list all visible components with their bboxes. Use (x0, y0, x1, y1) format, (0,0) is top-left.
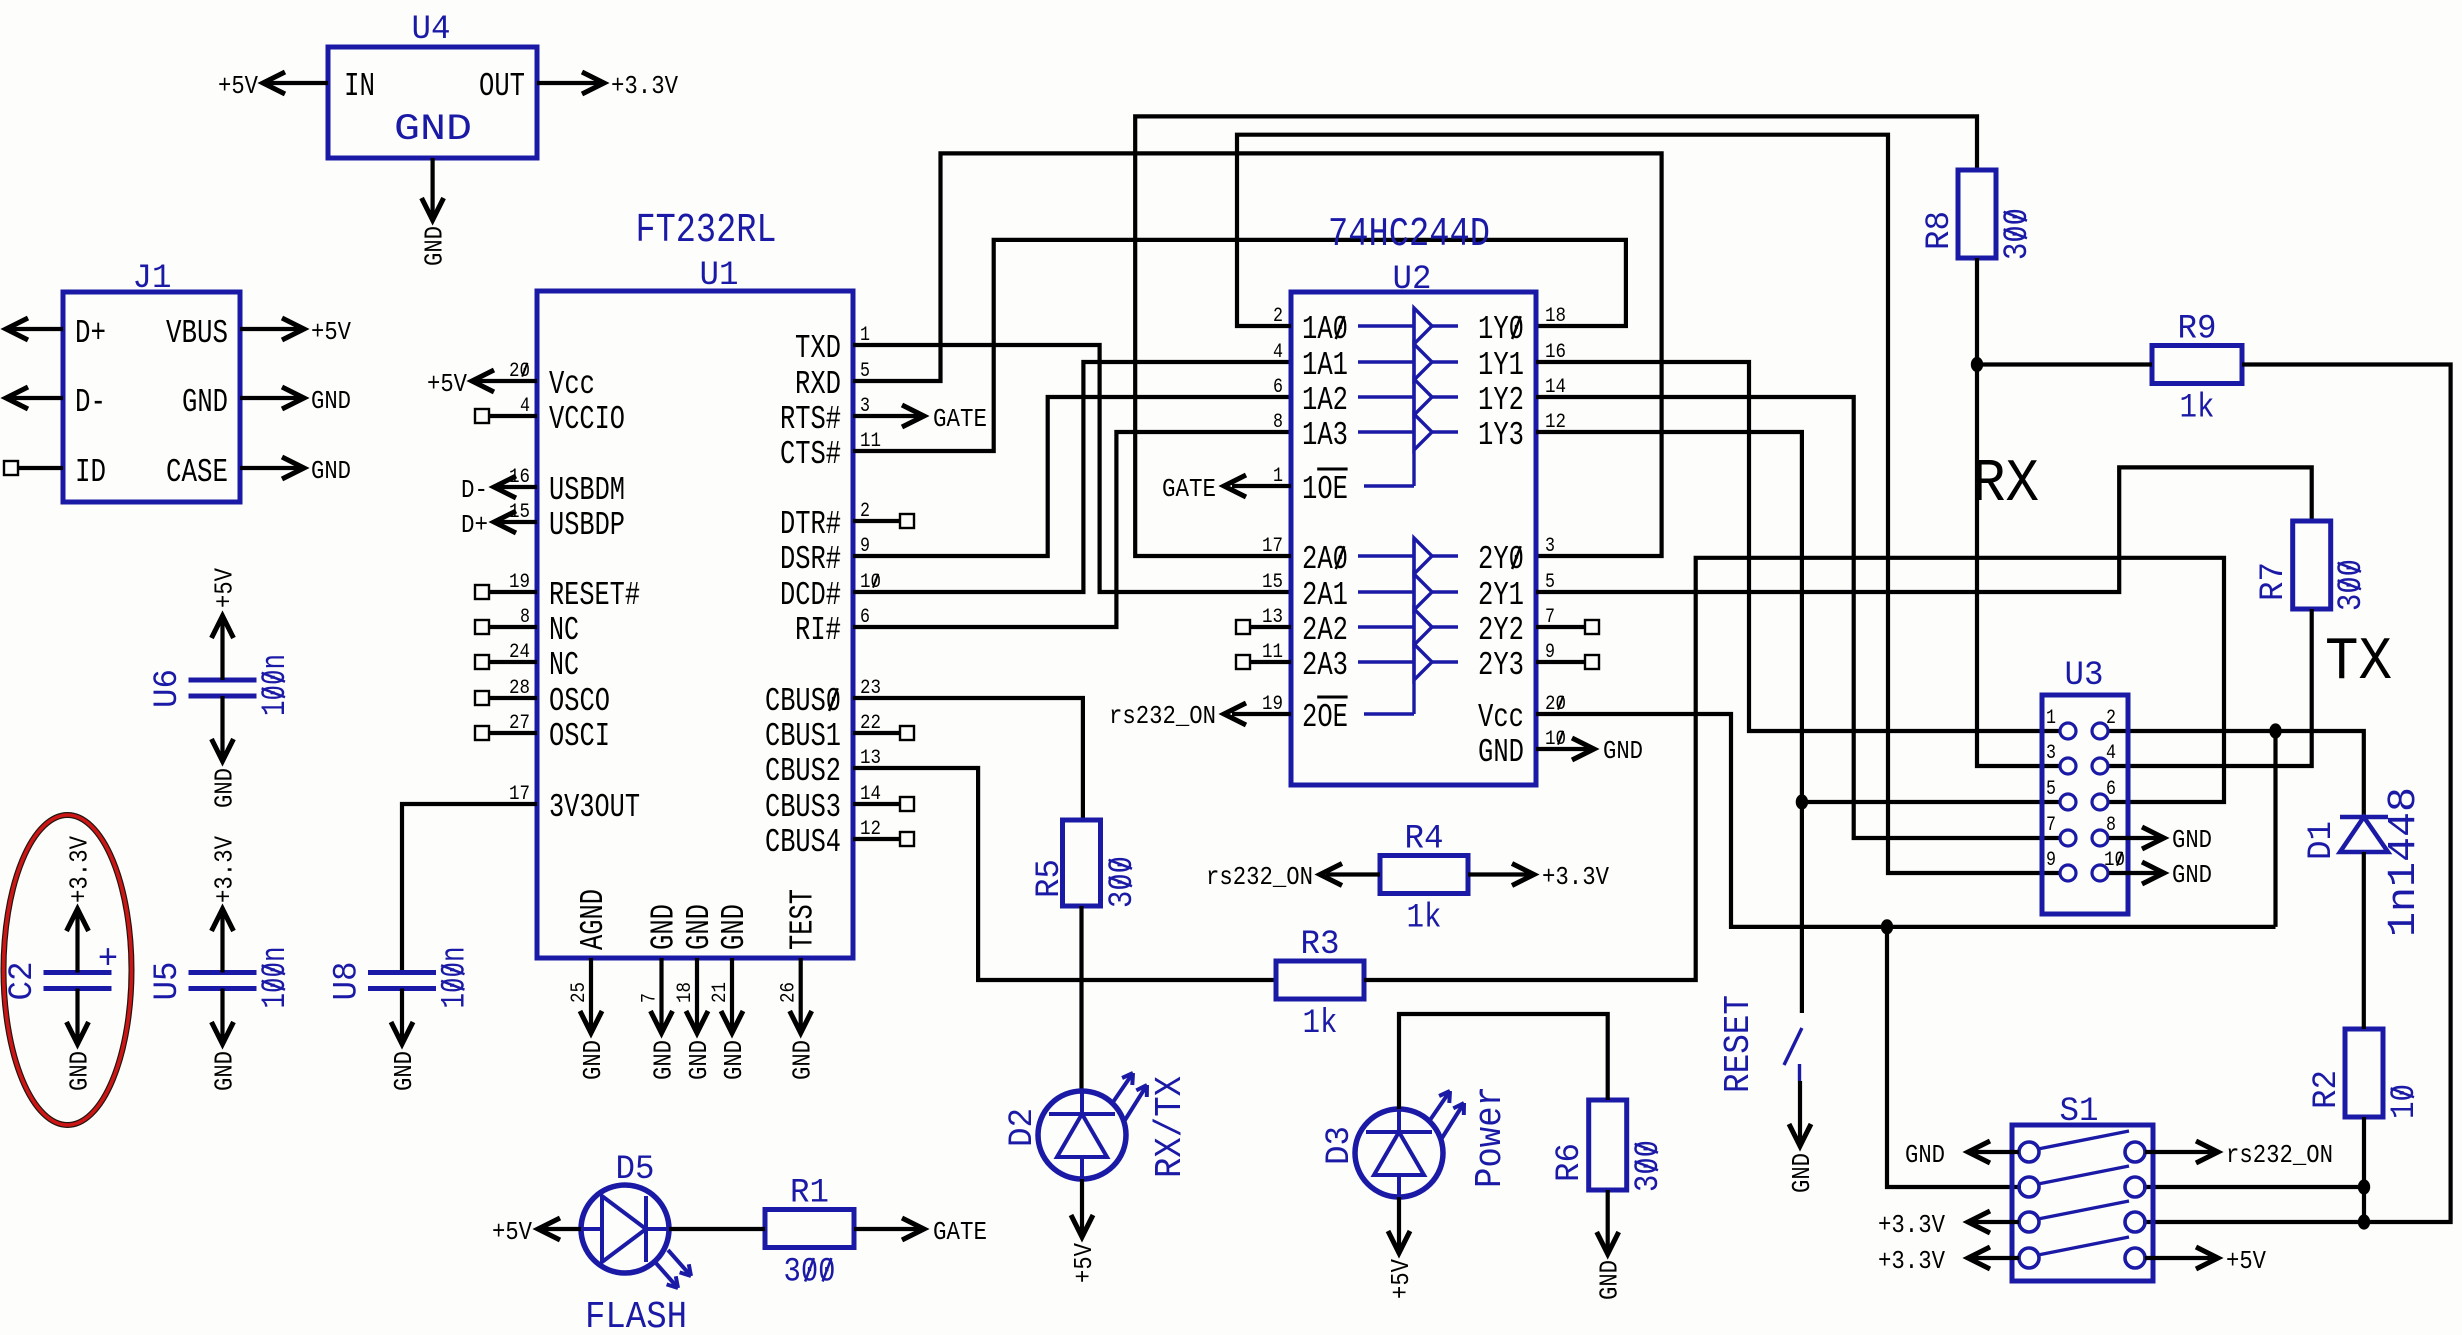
svg-text:rs232_ON: rs232_ON (2226, 1140, 2333, 1170)
svg-text:3V3OUT: 3V3OUT (549, 789, 640, 826)
junction U3 pin2 net (2269, 723, 2281, 738)
wire S1 row3 left (1972, 1220, 2019, 1224)
wire U2 2Y2 (1536, 625, 1585, 629)
wire R2 to S1 junctions (2362, 1117, 2366, 1222)
svg-text:CBUS2: CBUS2 (765, 753, 841, 790)
wire CBUS4 (853, 837, 900, 841)
svg-text:6: 6 (2106, 778, 2116, 801)
wire U2 2Y3 (1536, 660, 1585, 664)
wire DCD# to U2 1A1 (853, 362, 1291, 592)
wire D2 to +5V (1080, 1179, 1084, 1233)
svg-text:TXD: TXD (795, 330, 841, 367)
svg-text:ID: ID (75, 454, 106, 491)
wire to S1 row2 right (2143, 1185, 2364, 1189)
svg-text:USBDP: USBDP (549, 507, 625, 544)
svg-text:5: 5 (2046, 778, 2056, 801)
no-connect (U1 RESET#) (475, 585, 489, 599)
svg-text:1A0: 1A0 (1302, 311, 1348, 348)
svg-text:TEST: TEST (785, 889, 822, 950)
wire C2 to GND (75, 989, 79, 1041)
header U3 (2042, 695, 2128, 914)
wire D1 to R2 (2362, 852, 2366, 1029)
wire to U3 pin5 (1802, 800, 2060, 804)
voltage regulator U4 (328, 47, 537, 158)
svg-text:1A1: 1A1 (1302, 347, 1348, 384)
svg-text:OSCO: OSCO (549, 683, 610, 720)
svg-text:GND: GND (311, 456, 351, 486)
junction S1 row3 node (2358, 1214, 2370, 1229)
svg-text:1Y2: 1Y2 (1478, 382, 1524, 419)
svg-text:7: 7 (639, 993, 662, 1003)
wire D5 to R1 (669, 1227, 765, 1231)
svg-text:100n: 100n (257, 654, 295, 716)
ground (U6) (210, 768, 240, 808)
U1 bottom pin names (575, 889, 822, 950)
ground (U1 pin 18) (684, 1040, 714, 1080)
svg-text:NC: NC (549, 612, 579, 649)
svg-text:21: 21 (709, 982, 732, 1003)
svg-text:R3: R3 (1301, 926, 1340, 964)
U2 right pin numbers (1545, 305, 1566, 751)
wire U2 2A2 (1250, 625, 1291, 629)
svg-text:GND: GND (2172, 825, 2212, 855)
svg-text:NC: NC (549, 647, 579, 684)
no-connect (J1 ID) (4, 461, 18, 475)
svg-text:TX: TX (2325, 629, 2392, 697)
ground (U1 pin 25) (578, 1040, 608, 1080)
ground (U8) (389, 1051, 419, 1091)
wire U1 pin 21 GND (730, 958, 734, 1031)
U2 buffer bank 2 (1412, 538, 1415, 714)
wire U1 RESET# (489, 590, 537, 594)
wire U2 2A0 to R8 (1135, 116, 1977, 556)
svg-text:+5V: +5V (492, 1217, 532, 1247)
wire U2 Vcc to 3V3 rail (1536, 714, 2276, 927)
svg-text:GND: GND (684, 1040, 714, 1080)
svg-text:18: 18 (1545, 305, 1566, 328)
wire DTR# (853, 519, 900, 523)
svg-text:1k: 1k (1303, 1005, 1338, 1043)
no-connect (U1 OSCI) (475, 726, 489, 740)
wire C2 to +3.3V (75, 913, 79, 973)
svg-text:2A2: 2A2 (1302, 612, 1348, 649)
svg-text:GND: GND (1595, 1260, 1625, 1300)
ground (U5) (210, 1051, 240, 1091)
wire RTS# (853, 414, 922, 418)
wire U5 to +3.3V (220, 913, 224, 973)
wire U5 to GND (220, 989, 224, 1041)
wire R3 to U3 pin6 (1364, 558, 2224, 980)
U2 left pin names (1302, 311, 1348, 736)
wire U1 pin 26 GND (799, 958, 803, 1031)
wire U1 VCCIO (489, 414, 537, 418)
wire RI# to U2 1A3 (853, 432, 1291, 627)
svg-text:+: + (98, 941, 118, 979)
svg-text:1Y1: 1Y1 (1478, 347, 1524, 384)
wire +5V to D5 (540, 1227, 581, 1231)
wire 3.3V rail to S1 row2 (1887, 927, 2021, 1187)
svg-text:OSCI: OSCI (549, 718, 610, 755)
wire S1 row4 right (2145, 1256, 2214, 1260)
wire R9 to S1 row3 (2242, 365, 2451, 1223)
svg-text:R2: R2 (2308, 1070, 2346, 1109)
svg-text:GND: GND (681, 904, 718, 950)
wire U8 to GND (400, 989, 404, 1041)
no-connect (U1 CBUS4) (900, 832, 914, 846)
svg-text:+3.3V: +3.3V (210, 836, 240, 903)
wire J1 D+ (8, 327, 63, 331)
svg-text:+5V: +5V (1069, 1243, 1099, 1283)
svg-text:R9: R9 (2178, 311, 2217, 349)
svg-text:D3: D3 (1321, 1126, 1359, 1165)
LED D5 FLASH (581, 1185, 669, 1273)
resistor R3 1k (1276, 961, 1364, 999)
junction S1 row2 node (2358, 1179, 2370, 1194)
wire U1 pin 25 GND (589, 958, 593, 1031)
wire U2 1Y2 to U3 pin7 (1536, 397, 2060, 838)
svg-text:U6: U6 (149, 669, 187, 708)
no-connect (U1 NC24) (475, 655, 489, 669)
svg-text:GND: GND (719, 1040, 749, 1080)
svg-text:S1: S1 (2060, 1093, 2099, 1131)
svg-text:U2: U2 (1393, 261, 1432, 299)
svg-text:RX: RX (1972, 451, 2039, 519)
resistor R6 300 (1589, 1100, 1627, 1190)
svg-text:1: 1 (2046, 707, 2056, 730)
svg-text:RESET#: RESET# (549, 577, 640, 614)
wire DSR# to U2 1A2 (853, 397, 1291, 556)
svg-text:D+: D+ (75, 315, 106, 352)
svg-text:VBUS: VBUS (166, 315, 228, 352)
U1 left pin numbers (509, 360, 530, 806)
power +3.3V (C2) (65, 836, 95, 903)
svg-text:18: 18 (674, 982, 697, 1003)
svg-text:CASE: CASE (166, 454, 228, 491)
wire U2 1Y1 to U3 pin1 (1536, 362, 2060, 731)
ground (U1 pin 21) (719, 1040, 749, 1080)
capacitor U5 100n (189, 970, 257, 975)
wire U2 2OE (1232, 712, 1291, 716)
svg-text:1Y0: 1Y0 (1478, 311, 1524, 348)
svg-text:1A3: 1A3 (1302, 417, 1348, 454)
wire U4 GND (431, 158, 435, 218)
wire U1 USBDP (496, 520, 537, 524)
svg-text:8: 8 (1273, 411, 1283, 434)
wire J1 GND (240, 396, 302, 400)
svg-text:CTS#: CTS# (780, 436, 841, 473)
svg-text:Power: Power (1469, 1086, 1512, 1188)
wire (537, 81, 602, 85)
svg-text:GND: GND (210, 768, 240, 808)
svg-text:U5: U5 (149, 962, 187, 1001)
svg-text:4: 4 (1273, 341, 1283, 364)
svg-text:GND: GND (716, 904, 753, 950)
wire U1 pin 18 GND (695, 958, 699, 1031)
svg-text:2A1: 2A1 (1302, 577, 1348, 614)
power +5V (D2) (1069, 1243, 1099, 1283)
svg-text:8: 8 (2106, 814, 2116, 837)
wire RX node to R9 (1977, 362, 2152, 366)
svg-text:7: 7 (2046, 814, 2056, 837)
IC U1 FT232RL box (537, 291, 853, 958)
svg-text:GND: GND (394, 109, 472, 151)
wire U6 to +5V (220, 620, 224, 680)
wire U1 OSCO (489, 696, 537, 700)
capacitor C2 (polarized) (44, 970, 112, 975)
svg-text:U3: U3 (2065, 657, 2104, 695)
U1 bottom pin numbers (568, 982, 801, 1003)
svg-text:1n1448: 1n1448 (2382, 787, 2427, 937)
svg-text:FLASH: FLASH (585, 1296, 687, 1335)
switch RESET (1784, 1028, 1802, 1065)
svg-text:15: 15 (1262, 571, 1283, 594)
svg-text:2Y3: 2Y3 (1478, 647, 1524, 684)
wire R4 right (1468, 872, 1530, 876)
svg-text:GND: GND (1787, 1153, 1817, 1193)
no-connect (U1 NC8) (475, 620, 489, 634)
svg-text:FT232RL: FT232RL (636, 208, 777, 254)
wire R8 bottom to RX node (1975, 258, 1979, 365)
wire 3.3V rail to U3 pin2 net (2273, 731, 2277, 927)
svg-text:Vcc: Vcc (1478, 699, 1524, 736)
svg-text:D+: D+ (461, 510, 488, 540)
svg-text:4: 4 (2106, 742, 2116, 765)
svg-text:DSR#: DSR# (780, 541, 841, 578)
wire U2 1Y3 to RESET switch (1536, 432, 1802, 1013)
svg-text:GND: GND (311, 386, 351, 416)
svg-text:C2: C2 (4, 962, 42, 1001)
resistor R8 300 (1958, 170, 1996, 258)
ground (RESET) (1787, 1153, 1817, 1193)
svg-text:74HC244D: 74HC244D (1328, 212, 1490, 258)
wire CTS# to U2 1Y0 (853, 240, 1626, 451)
junction 3.3V rail (1881, 919, 1893, 934)
no-connect (U2 2Y2) (1585, 620, 1599, 634)
wire U1 NC24 (489, 660, 537, 664)
svg-text:100n: 100n (257, 947, 295, 1009)
svg-text:U8: U8 (329, 962, 367, 1001)
svg-text:GND: GND (420, 226, 450, 266)
svg-text:GATE: GATE (933, 1217, 987, 1247)
wire U2 1OE (1232, 484, 1291, 488)
svg-text:3: 3 (2046, 742, 2056, 765)
svg-text:D5: D5 (616, 1151, 655, 1189)
svg-text:R7: R7 (2255, 562, 2293, 601)
svg-text:2Y0: 2Y0 (1478, 541, 1524, 578)
diode D1 1n1448 (2340, 815, 2388, 820)
IC U2 74HC244D box (1291, 292, 1536, 785)
svg-text:D1: D1 (2303, 821, 2341, 860)
svg-text:+5V: +5V (210, 568, 240, 608)
svg-text:Vcc: Vcc (549, 366, 595, 403)
svg-text:RESET: RESET (1718, 995, 1759, 1093)
svg-text:D-: D- (461, 475, 488, 505)
wire U2 2Y1 to R7 (1536, 467, 2312, 592)
svg-text:GATE: GATE (1162, 474, 1216, 504)
power +3.3V (U5) (210, 836, 240, 903)
svg-text:1k: 1k (1407, 900, 1442, 938)
svg-text:100n: 100n (437, 947, 475, 1009)
highlight ellipse around C2 (4, 815, 132, 1125)
svg-text:26: 26 (778, 982, 801, 1003)
svg-text:U4: U4 (412, 11, 451, 49)
U2 left pin numbers (1262, 305, 1283, 716)
resistor R2 10 (2345, 1029, 2383, 1117)
power +5V (U6) (210, 568, 240, 608)
switch block S1 (2012, 1125, 2153, 1281)
svg-text:U1: U1 (700, 257, 739, 295)
wire D3 to R6 (1399, 1014, 1608, 1109)
wire U3 pin2 to D1 (2108, 731, 2364, 817)
wire U2 GND (1536, 747, 1592, 751)
wire U1 OSCI (489, 731, 537, 735)
resistor R4 1k (1380, 856, 1468, 894)
ground (R6) (1595, 1260, 1625, 1300)
svg-text:D-: D- (75, 384, 106, 421)
capacitor U6 100n (189, 678, 257, 683)
wire U3 pin10 GND (2109, 871, 2162, 875)
svg-text:+5V: +5V (1386, 1259, 1416, 1299)
wire S1 row4 left (1972, 1256, 2019, 1260)
svg-text:rs232_ON: rs232_ON (1109, 701, 1216, 731)
resistor R7 300 (2293, 521, 2331, 609)
svg-text:rs232_ON: rs232_ON (1206, 862, 1313, 892)
wire R6 to GND (1606, 1190, 1610, 1250)
svg-text:3: 3 (1545, 535, 1555, 558)
wire CBUS3 (853, 802, 900, 806)
svg-text:2Y1: 2Y1 (1478, 577, 1524, 614)
wire RESET to GND (1798, 1081, 1802, 1144)
svg-text:1Y3: 1Y3 (1478, 417, 1524, 454)
svg-text:DCD#: DCD# (780, 577, 841, 614)
resistor R5 300 (1063, 820, 1101, 906)
capacitor U8 100n (368, 970, 436, 975)
wire U1 USBDM (496, 485, 537, 489)
no-connect (U1 CBUS3) (900, 797, 914, 811)
svg-text:1A2: 1A2 (1302, 382, 1348, 419)
svg-text:OUT: OUT (479, 68, 525, 105)
wire U6 to GND (220, 696, 224, 757)
U1 left pin names (549, 366, 640, 826)
wire R5 to D2 (1079, 906, 1083, 1092)
svg-text:CBUS4: CBUS4 (765, 824, 841, 861)
svg-text:R8: R8 (1921, 211, 1959, 250)
no-connect (U2 2Y3) (1585, 655, 1599, 669)
svg-text:1OE: 1OE (1302, 471, 1348, 508)
svg-text:GND: GND (210, 1051, 240, 1091)
svg-text:GND: GND (649, 1040, 679, 1080)
wire U1 NC8 (489, 625, 537, 629)
resistor R1 300 (765, 1210, 854, 1248)
LED D3 Power (1355, 1109, 1443, 1197)
svg-text:25: 25 (568, 982, 591, 1003)
ground (U1 pin 26) (788, 1040, 818, 1080)
wire to S1 row3 right (2143, 1220, 2364, 1224)
LED D2 RX/TX (1038, 1091, 1126, 1179)
no-connect (U1 DTR#) (900, 514, 914, 528)
svg-text:9: 9 (2046, 849, 2056, 872)
svg-text:GND: GND (182, 384, 228, 421)
wire J1 CASE (240, 466, 302, 470)
connector J1 (63, 292, 240, 502)
svg-text:R1: R1 (790, 1175, 829, 1213)
svg-text:GND: GND (2172, 860, 2212, 890)
wire 3V3OUT to C-U8 (402, 804, 537, 970)
wire RX node to U3 pin3 (1977, 365, 2060, 767)
no-connect (U2 2A2) (1236, 620, 1250, 634)
wire CBUS2 to R3 (853, 768, 1276, 980)
power +5V (D3) (1386, 1259, 1416, 1299)
svg-text:GND: GND (1603, 736, 1643, 766)
svg-text:GATE: GATE (933, 404, 987, 434)
svg-text:GND: GND (1478, 734, 1524, 771)
no-connect (U2 2A3) (1236, 655, 1250, 669)
wire R1 to GATE (854, 1227, 920, 1231)
svg-text:1k: 1k (2180, 390, 2215, 428)
svg-text:2A0: 2A0 (1302, 541, 1348, 578)
svg-text:VCCIO: VCCIO (549, 401, 625, 438)
svg-text:RXD: RXD (795, 366, 841, 403)
svg-text:R6: R6 (1551, 1143, 1589, 1182)
ground (U4) (420, 226, 450, 266)
svg-text:+5V: +5V (2226, 1246, 2266, 1276)
svg-text:D2: D2 (1004, 1108, 1042, 1147)
svg-text:+5V: +5V (427, 369, 467, 399)
wire J1 D- (8, 396, 63, 400)
svg-text:IN: IN (344, 68, 375, 105)
svg-text:GND: GND (65, 1051, 95, 1091)
U2 right pin names (1478, 311, 1524, 771)
wire U2 2A3 (1250, 660, 1291, 664)
ground (U1 pin 7) (649, 1040, 679, 1080)
no-connect (U1 VCCIO) (475, 409, 489, 423)
svg-text:2OE: 2OE (1302, 699, 1348, 736)
svg-text:RTS#: RTS# (780, 401, 841, 438)
resistor R9 1k (2152, 346, 2242, 384)
wire U3 pin8 GND (2109, 836, 2162, 840)
wire D3 to +5V (1397, 1197, 1401, 1249)
junction (1Y3 / U3 pin5) (1796, 794, 1808, 809)
svg-text:DTR#: DTR# (780, 506, 841, 543)
wire J1 ID (18, 466, 63, 470)
wire (266, 81, 328, 85)
wire U2 1A0 to U3 pin9 (1237, 135, 2060, 873)
wire R4 left (1326, 872, 1380, 876)
svg-text:2Y2: 2Y2 (1478, 612, 1524, 649)
svg-text:J1: J1 (133, 260, 172, 298)
svg-text:R5: R5 (1031, 859, 1069, 898)
wire CBUS1 (853, 731, 900, 735)
svg-text:+3.3V: +3.3V (1878, 1246, 1945, 1276)
svg-text:GND: GND (1905, 1140, 1945, 1170)
svg-text:RI#: RI# (795, 612, 841, 649)
wire J1 VBUS (240, 327, 302, 331)
wire S1 row1 right (2145, 1150, 2214, 1154)
no-connect (U1 CBUS1) (900, 726, 914, 740)
svg-text:R4: R4 (1405, 821, 1444, 859)
svg-text:RX/TX: RX/TX (1149, 1076, 1192, 1178)
svg-text:+3.3V: +3.3V (611, 71, 678, 101)
ground (C2) (65, 1051, 95, 1091)
svg-text:CBUS0: CBUS0 (765, 683, 841, 720)
no-connect (U1 OSCO) (475, 691, 489, 705)
svg-text:CBUS1: CBUS1 (765, 718, 841, 755)
U2 buffer bank 1 (1412, 308, 1415, 486)
svg-text:+5V: +5V (218, 71, 258, 101)
svg-text:GND: GND (646, 904, 683, 950)
wire S1 row1 left (1972, 1150, 2019, 1154)
U1 right pin numbers (860, 324, 881, 841)
